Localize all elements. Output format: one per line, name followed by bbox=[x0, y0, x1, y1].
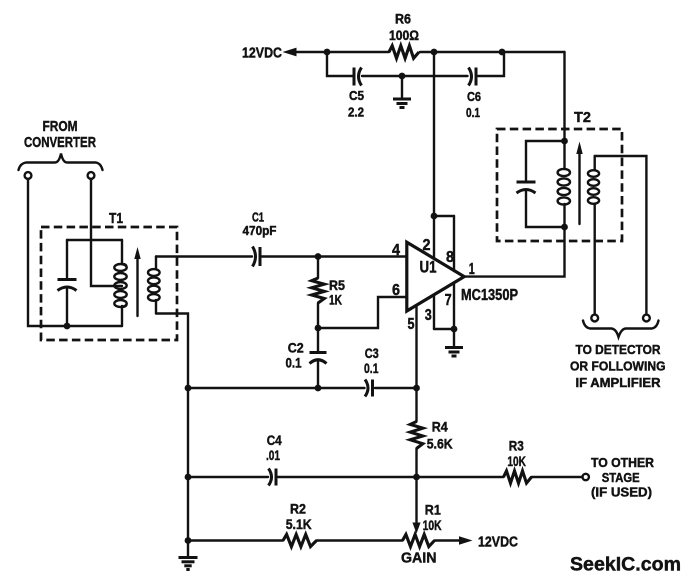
capacitor C6 bbox=[469, 68, 477, 86]
svg-text:R5: R5 bbox=[329, 277, 345, 293]
inductor T2 primary bbox=[558, 141, 570, 227]
arrow T2 core bbox=[576, 142, 582, 225]
wire output pin1 to T2 bbox=[464, 227, 564, 277]
resistor R5 bbox=[312, 257, 325, 329]
svg-text:U1: U1 bbox=[420, 259, 437, 277]
resistor R2 bbox=[283, 534, 317, 546]
resistor R6 bbox=[389, 46, 419, 59]
node pin2 pin8 junction bbox=[431, 213, 438, 220]
svg-text:100Ω: 100Ω bbox=[389, 28, 419, 43]
capacitor C3 bbox=[365, 380, 373, 397]
node pin7 junction bbox=[451, 326, 458, 333]
node bus388 left bbox=[185, 385, 192, 392]
svg-text:.01: .01 bbox=[266, 448, 280, 463]
capacitor C2 bbox=[310, 328, 327, 388]
svg-text:GAIN: GAIN bbox=[401, 550, 437, 567]
node top rail junction 3 bbox=[499, 49, 506, 56]
capacitor T2 tuning bbox=[517, 141, 565, 227]
capacitor C1 bbox=[253, 247, 261, 267]
wire mid bus y477 bbox=[188, 476, 583, 478]
inductor T1 primary bbox=[114, 240, 126, 326]
svg-text:R1: R1 bbox=[425, 502, 441, 518]
inductor T1 secondary bbox=[148, 257, 160, 314]
node T2 bottom junction bbox=[561, 224, 568, 231]
12VDC top arrow bbox=[283, 48, 297, 57]
terminal detector left bbox=[591, 315, 598, 322]
arrow T1 core bbox=[134, 247, 140, 316]
svg-text:2.2: 2.2 bbox=[348, 106, 364, 120]
wire T2 secondary top out bbox=[595, 156, 647, 315]
svg-text:SeekIC.com: SeekIC.com bbox=[570, 554, 681, 576]
capacitor C5 bbox=[354, 68, 362, 86]
svg-text:C6: C6 bbox=[467, 90, 481, 104]
capacitor C4 bbox=[269, 469, 277, 486]
transformer T1 dashed box bbox=[41, 227, 177, 340]
svg-text:R4: R4 bbox=[432, 419, 448, 435]
wire bottom bus y540.5 bbox=[188, 539, 461, 541]
inductor T2 secondary bbox=[588, 156, 599, 315]
ground top bbox=[393, 76, 411, 108]
svg-text:R2: R2 bbox=[290, 501, 306, 517]
svg-text:FROM: FROM bbox=[43, 118, 78, 135]
svg-text:C5: C5 bbox=[349, 89, 364, 103]
svg-text:0.1: 0.1 bbox=[466, 106, 480, 120]
svg-text:5: 5 bbox=[408, 316, 415, 333]
node bus477 R4 bbox=[413, 474, 420, 481]
svg-text:5.6K: 5.6K bbox=[427, 436, 453, 452]
svg-text:C1: C1 bbox=[252, 211, 264, 225]
capacitor T1 tuning bbox=[58, 240, 77, 326]
op-amp U1 bbox=[407, 242, 464, 311]
node T2 top junction bbox=[561, 138, 568, 145]
brace from converter bbox=[19, 154, 103, 171]
terminal to other stage bbox=[583, 474, 589, 480]
svg-text:3: 3 bbox=[425, 307, 432, 324]
svg-text:10K: 10K bbox=[423, 517, 442, 533]
svg-text:0.1: 0.1 bbox=[364, 361, 379, 376]
wire top rail bbox=[294, 51, 565, 53]
wire T2 supply down bbox=[563, 52, 565, 141]
node bus388 right bbox=[413, 385, 420, 392]
arrow 12VDC bottom bbox=[459, 536, 473, 544]
svg-text:12VDC: 12VDC bbox=[478, 534, 518, 551]
svg-text:0.1: 0.1 bbox=[286, 356, 302, 371]
svg-text:MC1350P: MC1350P bbox=[461, 287, 518, 304]
svg-text:12VDC: 12VDC bbox=[242, 45, 282, 62]
wire pin5 down bbox=[415, 306, 417, 389]
terminal detector right bbox=[643, 315, 650, 322]
ground op-amp bbox=[445, 348, 463, 357]
wire R5 to pin6 bbox=[318, 297, 407, 328]
wire C1 to pin4 bbox=[260, 255, 407, 257]
svg-text:C2: C2 bbox=[288, 341, 304, 356]
svg-text:10K: 10K bbox=[507, 453, 526, 469]
svg-text:5.1K: 5.1K bbox=[286, 516, 312, 532]
svg-text:T2: T2 bbox=[574, 109, 591, 126]
svg-text:C4: C4 bbox=[267, 433, 282, 448]
node bus477 left bbox=[185, 474, 192, 481]
wire T1 secondary bottom bbox=[156, 314, 188, 557]
wire pin2 supply bbox=[434, 52, 454, 271]
svg-text:TO OTHER: TO OTHER bbox=[591, 455, 655, 470]
wire C5/C6 branch bbox=[327, 52, 504, 76]
svg-text:T1: T1 bbox=[109, 210, 123, 227]
svg-text:R6: R6 bbox=[395, 12, 411, 27]
terminal right input bbox=[88, 172, 95, 179]
ground bottom left bbox=[179, 558, 198, 570]
svg-text:(IF USED): (IF USED) bbox=[591, 485, 652, 500]
svg-text:C3: C3 bbox=[365, 346, 379, 361]
resistor R1 potentiometer bbox=[403, 534, 435, 546]
svg-text:TO DETECTOR: TO DETECTOR bbox=[576, 342, 662, 357]
wire lower bus y388 bbox=[188, 387, 417, 389]
svg-text:IF AMPLIFIER: IF AMPLIFIER bbox=[576, 375, 662, 390]
svg-text:6: 6 bbox=[392, 282, 400, 299]
wire T1 LC top rail bbox=[67, 239, 122, 241]
wire left input down bbox=[28, 179, 122, 326]
wiper arrow R1 bbox=[412, 477, 420, 534]
node C5C6 ground junction bbox=[399, 73, 406, 80]
node T1 bottom junction bbox=[64, 323, 71, 330]
svg-text:4: 4 bbox=[392, 242, 400, 259]
resistor R3 bbox=[504, 471, 532, 483]
node top rail junction 1 bbox=[324, 49, 331, 56]
brace to detector bbox=[583, 321, 659, 338]
svg-text:OR FOLLOWING: OR FOLLOWING bbox=[570, 359, 666, 374]
transformer T2 dashed box bbox=[497, 129, 622, 241]
svg-text:1K: 1K bbox=[329, 293, 342, 308]
wire pin3 pin7 bbox=[434, 283, 454, 346]
node bus388 C2 bbox=[315, 385, 322, 392]
terminal left input bbox=[25, 172, 32, 179]
svg-text:R3: R3 bbox=[509, 438, 524, 454]
node top rail junction 2 bbox=[431, 49, 438, 56]
svg-text:CONVERTER: CONVERTER bbox=[24, 135, 96, 151]
resistor R4 bbox=[410, 388, 423, 477]
svg-text:470pF: 470pF bbox=[243, 224, 277, 238]
wire T1 out to C1 bbox=[156, 255, 252, 257]
svg-text:7: 7 bbox=[445, 292, 452, 309]
svg-text:2: 2 bbox=[423, 237, 431, 254]
svg-text:STAGE: STAGE bbox=[602, 470, 640, 485]
node C1 junction bbox=[315, 253, 322, 260]
wire right input down to tap bbox=[91, 179, 122, 286]
node bottom bus left bbox=[185, 537, 192, 544]
node R5 bottom junction bbox=[315, 325, 322, 332]
